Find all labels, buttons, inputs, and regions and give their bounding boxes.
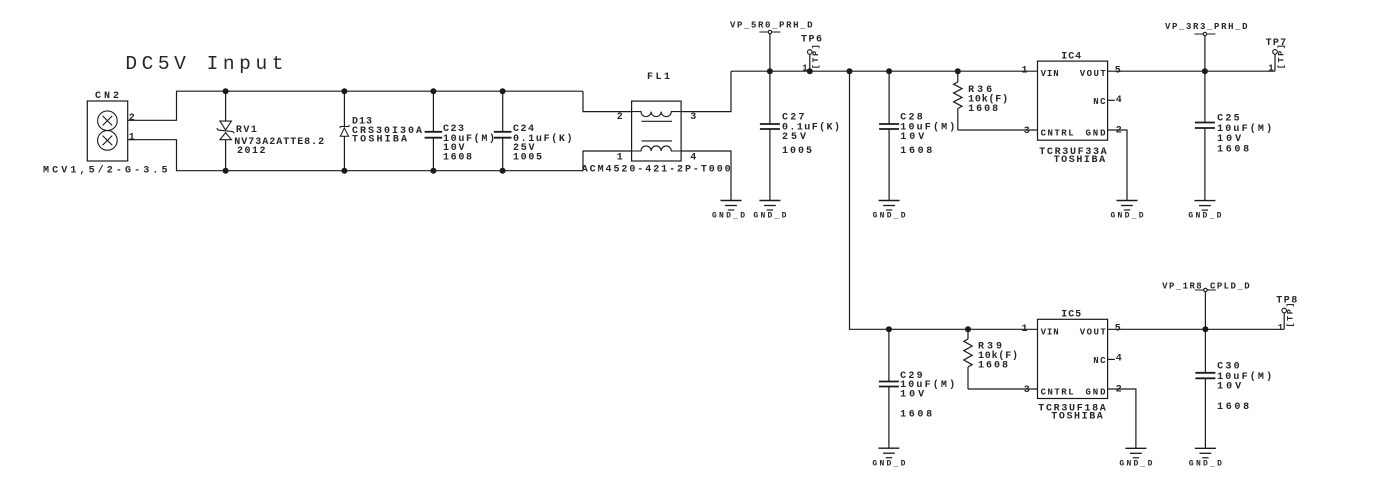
IC4 NC stub pin 4 xyxy=(1108,99,1115,101)
svg-text:10V: 10V xyxy=(1217,382,1241,393)
power symbol VP_5R0_PRH_D xyxy=(759,31,780,33)
svg-text:2: 2 xyxy=(617,112,623,123)
svg-text:VP_3R3_PRH_D: VP_3R3_PRH_D xyxy=(1165,22,1248,32)
svg-text:NC: NC xyxy=(1093,97,1106,107)
svg-text:1: 1 xyxy=(617,153,623,164)
svg-text:VIN: VIN xyxy=(1041,327,1059,337)
junction D13 top xyxy=(341,88,347,94)
testpoint TP6 xyxy=(808,50,813,55)
junction TP6 xyxy=(807,68,813,74)
svg-text:FL1: FL1 xyxy=(647,72,670,83)
svg-text:ACM4520-421-2P-T000: ACM4520-421-2P-T000 xyxy=(582,165,731,176)
wire branch down to IC5 section xyxy=(850,71,1038,329)
svg-text:1608: 1608 xyxy=(978,361,1008,372)
CN2 pin 1 stub xyxy=(128,139,136,141)
svg-text:[TP]: [TP] xyxy=(811,44,821,69)
capacitor C25 xyxy=(1204,71,1206,122)
svg-text:GND_D: GND_D xyxy=(1111,212,1144,221)
svg-text:10V: 10V xyxy=(1217,134,1241,145)
svg-text:TP6: TP6 xyxy=(801,35,822,46)
wire R36 to IC4 CNTRL xyxy=(958,129,1037,131)
svg-text:GND: GND xyxy=(1086,128,1107,138)
svg-text:RV1: RV1 xyxy=(236,125,257,136)
capacitor C30 xyxy=(1204,329,1206,373)
svg-text:TP8: TP8 xyxy=(1276,296,1297,307)
wire VP_1R8 tap to rail xyxy=(1204,292,1206,329)
junction R39 top xyxy=(965,326,971,332)
svg-text:GND_D: GND_D xyxy=(1188,212,1221,221)
power symbol VP_3R3_PRH_D xyxy=(1194,33,1215,35)
junction C24 bottom xyxy=(500,168,506,174)
svg-text:CNTRL: CNTRL xyxy=(1041,387,1074,397)
connector CN2 body xyxy=(87,101,127,161)
filter FL1 upper winding xyxy=(632,112,682,117)
varistor RV1 top wire xyxy=(225,91,227,121)
svg-text:10V: 10V xyxy=(900,132,924,143)
svg-text:TOSHIBA: TOSHIBA xyxy=(352,134,407,145)
svg-text:4: 4 xyxy=(1116,95,1122,106)
svg-text:1608: 1608 xyxy=(1217,145,1249,156)
svg-text:1608: 1608 xyxy=(443,152,472,163)
svg-text:GND_D: GND_D xyxy=(873,212,906,221)
wire IC5 GND pin 2 to ground xyxy=(1108,389,1136,448)
wire FL1 pin3 up to VP_5R0 rail xyxy=(681,71,731,111)
capacitor C29 xyxy=(888,329,890,381)
svg-text:1: 1 xyxy=(1268,63,1274,73)
resistor R39 xyxy=(967,329,969,339)
ground FL1 pin4 xyxy=(721,200,742,202)
wire rail VP_1R8_CPLD_D xyxy=(1108,328,1285,330)
wire rail VP_5R0_PRH_D xyxy=(731,70,1037,72)
svg-text:1608: 1608 xyxy=(968,104,998,115)
filter FL1 body xyxy=(632,101,682,161)
svg-text:1: 1 xyxy=(129,133,135,144)
junction R36 top xyxy=(955,68,961,74)
varistor RV1 bottom wire xyxy=(225,140,227,171)
ground C27 xyxy=(759,200,780,202)
svg-text:1: 1 xyxy=(1278,323,1284,333)
svg-text:MCV1,5/2-G-3.5: MCV1,5/2-G-3.5 xyxy=(43,165,168,177)
svg-text:GND_D: GND_D xyxy=(753,212,786,221)
power symbol VP_1R8_CPLD_D xyxy=(1195,289,1216,291)
svg-text:2012: 2012 xyxy=(237,146,266,157)
svg-text:3: 3 xyxy=(690,112,696,123)
svg-text:TOSHIBA: TOSHIBA xyxy=(1054,155,1106,166)
filter FL1 lower winding xyxy=(632,146,682,151)
testpoint TP7 xyxy=(1273,44,1287,71)
ground C25 xyxy=(1194,200,1215,202)
wire rail VP_3R3_PRH_D xyxy=(1108,70,1275,72)
svg-text:C25: C25 xyxy=(1217,114,1240,125)
diode D13 symbol xyxy=(340,126,349,128)
svg-text:2: 2 xyxy=(1116,384,1122,395)
junction RV1 bottom xyxy=(223,168,229,174)
svg-text:TP7: TP7 xyxy=(1266,38,1287,49)
svg-text:C23: C23 xyxy=(443,124,464,135)
junction C24 top xyxy=(500,88,506,94)
wire bottom rail step up to FL1 pin1 xyxy=(583,151,632,171)
capacitor C28 xyxy=(888,71,890,124)
svg-text:IC4: IC4 xyxy=(1061,51,1081,62)
diode D13 top wire xyxy=(343,91,345,126)
ground C29 xyxy=(878,447,899,449)
wire CN2 pin2 to top rail xyxy=(136,91,584,120)
svg-text:1608: 1608 xyxy=(900,410,932,421)
svg-text:3: 3 xyxy=(1024,385,1030,396)
svg-text:1: 1 xyxy=(1022,324,1028,335)
svg-text:VOUT: VOUT xyxy=(1080,327,1107,337)
svg-text:4: 4 xyxy=(690,153,696,164)
svg-text:GND_D: GND_D xyxy=(872,460,905,469)
svg-text:VIN: VIN xyxy=(1041,69,1059,79)
svg-text:GND_D: GND_D xyxy=(1189,460,1222,469)
svg-text:1005: 1005 xyxy=(782,146,812,157)
varistor RV1 symbol xyxy=(220,121,232,130)
svg-text:GND_D: GND_D xyxy=(712,212,745,221)
resistor R36 xyxy=(957,71,959,82)
junction RV1 top xyxy=(223,88,229,94)
CN2 pin 2 stub xyxy=(128,119,136,121)
svg-text:TOSHIBA: TOSHIBA xyxy=(1051,412,1103,423)
capacitor C24 xyxy=(502,91,504,132)
connector CN2 pin circle 1 xyxy=(98,131,118,151)
wire top rail step down to FL1 pin2 xyxy=(583,91,632,111)
testpoint TP8 xyxy=(1282,303,1296,330)
svg-text:NC: NC xyxy=(1093,356,1106,366)
svg-text:GND: GND xyxy=(1086,387,1107,397)
svg-text:DC5V Input: DC5V Input xyxy=(125,53,283,75)
svg-text:VP_5R0_PRH_D: VP_5R0_PRH_D xyxy=(730,21,813,31)
junction VP_5R0 tap xyxy=(767,68,773,74)
svg-text:1608: 1608 xyxy=(900,146,932,157)
junction C28 top xyxy=(886,68,892,74)
svg-text:2: 2 xyxy=(1116,125,1122,136)
wire IC4 GND pin 2 to ground xyxy=(1108,130,1127,201)
IC5 NC stub pin 4 xyxy=(1108,358,1115,360)
connector CN2 pin circle 2 xyxy=(98,111,118,131)
filter FL1 core lines xyxy=(642,120,673,122)
wire R39 to IC5 CNTRL xyxy=(968,388,1037,390)
regulator IC4 body xyxy=(1038,61,1108,140)
junction C23 top xyxy=(430,88,436,94)
ground IC4 xyxy=(1117,200,1138,202)
svg-text:1608: 1608 xyxy=(1217,402,1249,413)
svg-text:3: 3 xyxy=(1024,126,1030,137)
svg-text:C24: C24 xyxy=(513,124,534,135)
regulator IC5 body xyxy=(1038,319,1108,398)
junction C29 top xyxy=(886,326,892,332)
svg-text:1: 1 xyxy=(1022,66,1028,77)
svg-text:4: 4 xyxy=(1116,354,1122,365)
svg-text:25V: 25V xyxy=(782,132,806,143)
junction C23 bottom xyxy=(430,168,436,174)
svg-text:GND_D: GND_D xyxy=(1119,460,1152,469)
junction VP_1R8 tap xyxy=(1202,326,1208,332)
capacitor C27 xyxy=(769,71,771,124)
wire power tap to rail xyxy=(769,34,771,71)
svg-text:CN2: CN2 xyxy=(95,91,119,102)
svg-text:1005: 1005 xyxy=(513,152,542,163)
svg-text:C30: C30 xyxy=(1217,362,1240,373)
capacitor C23 xyxy=(432,91,434,132)
ground C30 xyxy=(1195,447,1216,449)
junction D13 bottom xyxy=(341,168,347,174)
wire FL1 pin4 down to ground xyxy=(681,151,731,201)
junction branch top xyxy=(847,68,853,74)
ground C28 xyxy=(879,200,900,202)
diode D13 bottom wire xyxy=(343,136,345,170)
ground IC5 xyxy=(1125,447,1146,449)
junction VP_3R3 tap xyxy=(1202,68,1208,74)
svg-text:CNTRL: CNTRL xyxy=(1041,128,1074,138)
wire CN2 pin1 to bottom rail xyxy=(136,140,584,171)
svg-text:IC5: IC5 xyxy=(1061,310,1081,321)
wire VP_3R3 tap to rail xyxy=(1204,36,1206,71)
svg-text:VOUT: VOUT xyxy=(1080,69,1107,79)
svg-text:10V: 10V xyxy=(900,390,924,401)
svg-text:2: 2 xyxy=(129,113,135,124)
